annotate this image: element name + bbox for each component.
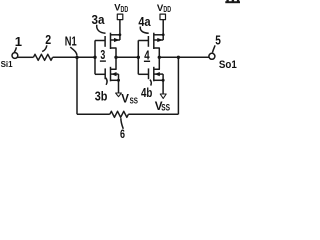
svg-text:1: 1 [15, 34, 22, 49]
svg-text:6: 6 [120, 127, 125, 139]
leader line for label 3a [97, 25, 106, 34]
transistor 3a (PMOS) [95, 33, 120, 58]
leader line for label 5 [213, 45, 216, 52]
inverter 3 gate bus [94, 40, 96, 74]
VDD line of inverter 4 [162, 20, 164, 40]
transistor 4a (PMOS) [138, 33, 163, 58]
junction dot wire/bus 3 [93, 56, 96, 59]
inverter 4 gate bus [137, 40, 139, 74]
svg-text:3: 3 [100, 48, 105, 62]
VDD square terminal 1 [117, 14, 123, 20]
svg-text:4b: 4b [141, 85, 152, 100]
transistor 4b (NMOS) [138, 57, 164, 94]
wire inverter 3 output to inverter 4 gate bus [116, 56, 138, 58]
inverter 3 output junction [114, 56, 117, 59]
wire Si1 to resistor 2 [18, 56, 34, 58]
svg-text:N1: N1 [65, 34, 77, 49]
leader line for label 4b [150, 80, 151, 86]
svg-text:2: 2 [45, 32, 51, 47]
leader line for label 4a [140, 27, 148, 34]
svg-text:DD: DD [163, 5, 171, 14]
resistor R2 [33, 54, 52, 60]
cropped print artifact at top-right edge [225, 0, 240, 3]
leader line for label N1 [70, 47, 77, 56]
svg-text:5: 5 [215, 34, 221, 48]
leader line for label 6 [121, 118, 124, 129]
wire inverter 4 output to So1 [159, 56, 209, 58]
svg-text:So1: So1 [219, 59, 237, 71]
leader line for label 2 [42, 45, 47, 51]
svg-text:4: 4 [144, 48, 149, 62]
node N1 junction dot [75, 56, 78, 59]
junction dot wire/bus 4 [137, 56, 140, 59]
inverter 4 output junction [158, 56, 161, 59]
wire feedback right vertical [177, 57, 179, 114]
VSS arrow of 4b [160, 94, 166, 98]
svg-text:DD: DD [121, 5, 129, 14]
resistor R6 [110, 111, 129, 117]
svg-text:4a: 4a [138, 14, 151, 29]
wire feedback bottom right [128, 113, 178, 115]
VDD square terminal 2 [160, 14, 166, 20]
wire N1 down to feedback bottom [76, 57, 78, 114]
svg-text:3b: 3b [95, 88, 108, 103]
svg-text:Si1: Si1 [1, 59, 13, 69]
terminal 1 (Si1 input circle) [12, 53, 18, 59]
VSS arrow of 3b [116, 93, 122, 97]
wire resistor 2 to node N1 and inverter 3 gate bus [53, 56, 95, 58]
junction dot output/feedback [177, 56, 180, 59]
svg-text:SS: SS [130, 96, 138, 106]
terminal 5 (So1 output circle) [209, 53, 215, 59]
leader line for label 1 [14, 47, 16, 52]
transistor 3b (NMOS) [95, 57, 120, 93]
svg-text:SS: SS [161, 103, 170, 113]
svg-text:3a: 3a [92, 12, 106, 27]
VDD line of inverter 3 [119, 20, 121, 40]
wire feedback bottom left [77, 113, 110, 115]
svg-text:V: V [121, 94, 129, 106]
leader line for label 3b [106, 78, 107, 85]
